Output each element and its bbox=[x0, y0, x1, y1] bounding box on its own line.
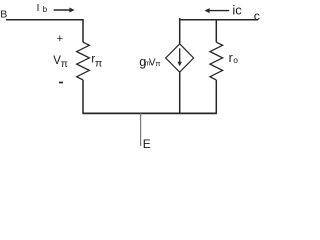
wire: r_o bottom to emitter rail bbox=[215, 80, 217, 114]
node c bbox=[254, 9, 260, 23]
current arrow Ib bbox=[54, 8, 75, 13]
wire: dependent source bottom to emitter rail bbox=[179, 72, 181, 113]
svg-text:+: + bbox=[57, 33, 63, 45]
node E stub bbox=[140, 113, 142, 146]
wire: collector rail bbox=[180, 19, 258, 21]
svg-text:ic: ic bbox=[232, 2, 242, 17]
label minus bbox=[59, 82, 63, 84]
wire: r_pi bottom to emitter rail bbox=[82, 80, 84, 114]
svg-text:π: π bbox=[61, 58, 68, 70]
svg-text:b: b bbox=[43, 5, 48, 14]
node E label bbox=[143, 137, 151, 151]
svg-text:π: π bbox=[155, 59, 160, 68]
label r_o bbox=[229, 51, 239, 65]
svg-text:o: o bbox=[233, 55, 238, 65]
wire: collector rail to r_o bbox=[215, 20, 217, 43]
resistor r_pi bbox=[77, 42, 90, 80]
label r_pi bbox=[91, 52, 102, 70]
label gmVpi bbox=[139, 55, 160, 69]
svg-text:c: c bbox=[254, 9, 260, 23]
current label Ib bbox=[37, 3, 48, 14]
current arrow ic bbox=[205, 8, 230, 13]
resistor r_o bbox=[210, 42, 223, 80]
label plus bbox=[57, 33, 63, 45]
arrow inside source bbox=[178, 48, 182, 66]
current label ic bbox=[232, 2, 242, 17]
svg-text:r: r bbox=[229, 51, 233, 65]
node B bbox=[0, 8, 7, 20]
svg-text:E: E bbox=[143, 137, 151, 151]
wire: base rail from B to r_pi bbox=[6, 20, 83, 43]
dependent current source gmVpi (diamond) bbox=[166, 44, 194, 72]
svg-text:B: B bbox=[0, 8, 7, 20]
wire: emitter bottom rail bbox=[82, 112, 217, 114]
label Vpi bbox=[53, 55, 68, 70]
wire: top stub to dependent source bbox=[179, 18, 181, 44]
svg-text:I: I bbox=[37, 3, 40, 14]
svg-text:π: π bbox=[95, 58, 102, 70]
